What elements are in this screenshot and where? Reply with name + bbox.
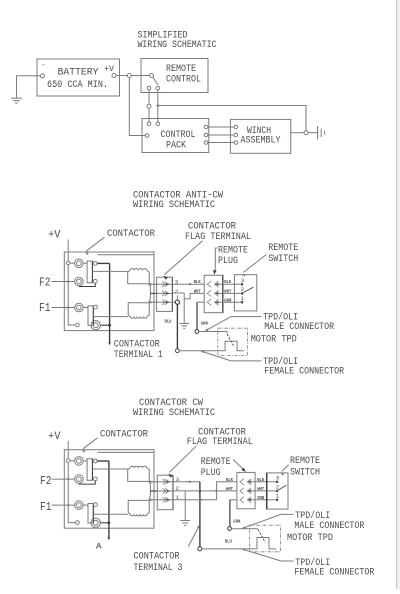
remote control label	[166, 63, 201, 85]
node winch ground junction	[304, 131, 308, 135]
wire row1 down to female (dark)	[199, 482, 201, 547]
control pack label	[161, 129, 196, 151]
leader remote switch label	[242, 255, 266, 277]
wire row2 ground drop (cw)	[184, 491, 186, 520]
wire T4 to A wire	[101, 522, 109, 524]
label F1 (anti-cw)	[39, 301, 51, 315]
tpd/oli male connector circle (anti-cw)	[195, 330, 199, 334]
svg-text:GRN: GRN	[201, 320, 208, 326]
wire plug GRN exit (cw)	[230, 499, 237, 501]
wire plug GRN exit	[197, 301, 204, 303]
wire plug to switch BLK (cw)	[255, 481, 275, 483]
label tpd/oli male connector (anti-cw)	[263, 312, 335, 334]
leader remote plug label	[213, 248, 217, 275]
svg-text:CONTACTOR: CONTACTOR	[134, 550, 181, 562]
tpd actuator diagonal (cw)	[258, 529, 265, 542]
plug chevrons row2	[207, 290, 223, 296]
svg-text:BLK: BLK	[226, 477, 233, 483]
winch assembly label	[241, 125, 282, 146]
wire contact b down	[157, 90, 159, 122]
contact pole1 lower point (cw)	[93, 477, 97, 481]
svg-text:WIRING SCHEMATIC: WIRING SCHEMATIC	[133, 407, 215, 419]
wire +V rail to control pack	[129, 78, 145, 136]
contactor flag terminal box (anti-cw)	[157, 277, 173, 311]
wire male connector to tpd (cw)	[231, 528, 258, 530]
switch pin 1 dot	[241, 301, 244, 304]
wire pole2 bar to lower coil (cw)	[93, 513, 128, 515]
contact bar pole 1	[87, 261, 92, 283]
control pack left terminal	[145, 134, 149, 138]
wire A (dark vertical)	[108, 461, 110, 538]
switch lever (cw)	[278, 485, 286, 490]
wire plug to switch WHT (cw)	[255, 490, 275, 492]
contactor box (anti-cw)	[64, 252, 154, 331]
wire T3 to contact bar 2 (cw)	[83, 504, 88, 506]
switch lever (anti-cw)	[243, 287, 253, 292]
plug chevrons row3 (cw)	[240, 497, 255, 503]
label GRN right (cw)	[257, 495, 264, 501]
row1 wire through flag box	[157, 283, 173, 285]
svg-text:WHT: WHT	[257, 486, 264, 492]
wire junction to chassis ground	[308, 132, 317, 134]
wire +V inner rail (cw)	[68, 462, 75, 522]
terminal T4 stud (cw)	[91, 518, 100, 527]
svg-text:FEMALE CONNECTOR: FEMALE CONNECTOR	[264, 366, 345, 378]
wire female connector to tpd element (cw)	[202, 538, 276, 549]
svg-text:MALE CONNECTOR: MALE CONNECTOR	[294, 520, 365, 532]
tpd actuator diagonal (anti-cw)	[227, 334, 234, 346]
arrowhead A wire end	[108, 537, 111, 540]
flag lug arrow row3	[148, 301, 151, 304]
wire T1 to contact bar	[83, 262, 87, 264]
wire plug to switch GRN	[223, 301, 241, 303]
svg-text:PACK: PACK	[166, 140, 187, 152]
wire pole1 lower to T2	[79, 283, 95, 286]
svg-text:F2: F2	[39, 276, 51, 290]
label contactor (anti-cw)	[107, 228, 156, 240]
svg-text:F1: F1	[39, 301, 51, 315]
label WHT left	[194, 289, 201, 295]
svg-text:WHT: WHT	[226, 486, 233, 492]
contact bar pole 1 (cw)	[87, 459, 92, 481]
tpd/oli female connector circle (anti-cw)	[176, 349, 180, 353]
wire control pack to winch 1	[208, 126, 234, 128]
svg-text:F1: F1	[40, 500, 52, 514]
coil K1 upper	[128, 269, 150, 284]
flag chevrons row3	[162, 300, 170, 305]
wire T1 to contact bar (cw)	[83, 460, 87, 462]
control pack box	[142, 119, 209, 153]
leader male connector label (cw)	[242, 514, 294, 528]
svg-text:2: 2	[175, 288, 179, 295]
label BLK plug-left (cw)	[226, 477, 233, 483]
wire BLU (dark vertical)	[176, 304, 178, 348]
svg-text:MOTOR TPD: MOTOR TPD	[287, 532, 333, 544]
contact pole1 upper point	[93, 262, 97, 266]
wire battery negative to ground	[17, 76, 41, 98]
wire winch to chassis ground	[291, 132, 304, 134]
row3 wire through flag box (cw)	[157, 499, 173, 501]
wire GRN drop (dark)	[196, 302, 198, 329]
wire plug WHT jog	[184, 293, 204, 298]
node +V circle (cw)	[66, 459, 70, 463]
battery positive terminal	[112, 74, 116, 78]
wire female connector to tpd + element	[179, 341, 244, 351]
svg-text:WHT: WHT	[194, 289, 201, 295]
remote plug box (anti-cw)	[204, 275, 223, 312]
arrowhead row3 (cw)	[200, 498, 203, 501]
svg-text:WHT: WHT	[224, 289, 231, 295]
label WHT plug-left (cw)	[226, 486, 233, 492]
leader male connector label	[205, 317, 262, 332]
plug chevrons row2 (cw)	[240, 488, 255, 494]
leader female connector label (cw)	[242, 549, 294, 561]
svg-text:GRN: GRN	[233, 518, 240, 524]
coil K2 lower (cw)	[128, 500, 149, 516]
switch pin 2 dot	[241, 292, 244, 295]
svg-text:TERMINAL 3: TERMINAL 3	[134, 562, 183, 574]
label F1 (cw)	[40, 500, 52, 514]
wire T3 to contact bar 2	[83, 307, 88, 309]
wire top rail to winch ground	[158, 106, 306, 131]
node junction circle	[147, 104, 151, 108]
wire coil row 3	[150, 301, 157, 303]
wire F2 (cw)	[52, 478, 75, 480]
wire F1	[52, 307, 75, 309]
label remote plug (anti-cw)	[218, 245, 248, 268]
control pack terminal t1	[147, 122, 151, 126]
leader contactor terminal 3	[188, 525, 199, 547]
title: contactor anti-cw wiring schematic	[133, 190, 224, 212]
label contactor terminal 1	[114, 338, 163, 360]
label F2 (cw)	[40, 474, 52, 488]
wire coil row 1 (cw)	[150, 481, 158, 483]
control pack right terminal r3	[204, 141, 208, 145]
wire plug to switch BLK	[223, 283, 241, 285]
motor tpd dashed box (anti-cw)	[218, 328, 248, 355]
wire pole1 upper to terminal wire	[97, 262, 109, 264]
wire +V inner rail	[68, 265, 75, 325]
svg-text:SWITCH: SWITCH	[268, 253, 298, 265]
junction dot T4 wire	[108, 324, 111, 327]
svg-text:GRN: GRN	[257, 495, 264, 501]
wire flag row3 to blu connector	[172, 301, 175, 303]
plug chevrons row1 (cw)	[240, 479, 255, 485]
remote switch box (anti-cw)	[234, 275, 256, 311]
wire pole2 bar to lower coil	[93, 316, 128, 318]
label remote plug (cw)	[201, 456, 231, 479]
plug chevrons row3	[207, 299, 223, 305]
switch pin numbers (cw)	[276, 474, 280, 499]
junction dot F1	[67, 306, 69, 308]
node +V circle	[66, 261, 70, 265]
svg-text:WIRING SCHEMATIC: WIRING SCHEMATIC	[138, 39, 217, 51]
leader flag terminal label (cw)	[168, 446, 196, 478]
svg-text:+V: +V	[104, 64, 115, 74]
leader contactor label	[85, 237, 104, 255]
terminal circle bottom left	[76, 323, 80, 327]
label motor tpd (cw)	[287, 532, 333, 544]
svg-text:BLK: BLK	[224, 279, 231, 285]
wire junction to control pack	[148, 108, 150, 122]
wire T4 to terminal wire	[101, 324, 110, 326]
contact bar pole 2 (cw)	[88, 504, 93, 524]
winch terminal w3	[234, 141, 238, 145]
battery negative terminal	[41, 74, 45, 78]
row3 wire through flag box	[157, 301, 173, 303]
svg-text:3: 3	[241, 277, 245, 284]
contact pole1 upper point (cw)	[93, 459, 97, 463]
inner top line	[98, 254, 155, 256]
coil K1 upper (cw)	[128, 466, 150, 481]
flag lug arrow row1	[148, 283, 151, 286]
ground flag row2	[179, 323, 189, 328]
arrowhead row2 (cw)	[216, 490, 219, 493]
label +V (anti-cw)	[48, 230, 61, 242]
terminal T1 stud	[75, 259, 84, 268]
winch terminal w2	[234, 133, 238, 137]
pin number 3 flag	[175, 279, 179, 286]
wire F1 (cw)	[52, 504, 75, 506]
svg-text:+V: +V	[48, 431, 61, 443]
terminal T2 stud (cw)	[75, 475, 84, 484]
svg-text:MALE CONNECTOR: MALE CONNECTOR	[264, 321, 335, 333]
flag chevrons row2	[162, 291, 170, 296]
wire plug to switch GRN (cw)	[255, 499, 275, 501]
battery labels	[42, 61, 115, 91]
chassis ground	[318, 126, 325, 140]
label tpd/oli male connector (cw)	[294, 510, 365, 532]
wire +V drop (cw)	[67, 441, 69, 459]
wire flag row2 to ground turn	[172, 292, 184, 294]
wire flag row1 right (cw)	[173, 481, 200, 483]
svg-text:FLAG TERMINAL: FLAG TERMINAL	[185, 231, 251, 243]
title: contactor cw wiring schematic	[133, 397, 215, 419]
wire coil row 3 (cw)	[150, 499, 158, 501]
terminal T2 stud	[75, 277, 84, 286]
switch pin 3 dot	[241, 283, 244, 286]
svg-text:3: 3	[276, 474, 280, 481]
label +V (cw)	[48, 431, 61, 443]
flag chevrons row3 (cw)	[163, 497, 171, 502]
wire flag row3 to plug BLK (cw)	[173, 482, 237, 500]
contact pole1 lower point	[93, 279, 97, 283]
leader female connector label	[200, 351, 261, 361]
label BLK right	[224, 279, 231, 285]
svg-text:GRN: GRN	[224, 297, 231, 303]
switch pin dots (cw)	[276, 481, 279, 502]
svg-text:BATTERY: BATTERY	[58, 67, 100, 79]
contact pole2 upper point	[94, 305, 98, 309]
svg-text:WIRING SCHEMATIC: WIRING SCHEMATIC	[133, 199, 215, 211]
wire battery positive to node	[116, 75, 127, 77]
remote control contact b	[156, 86, 160, 90]
remote control contact a	[147, 86, 151, 90]
switch pin numbers	[241, 277, 245, 302]
label remote switch (cw)	[290, 455, 320, 478]
wire pole1 bar to upper coil	[92, 270, 127, 272]
wire contact a down	[148, 90, 150, 104]
junction dot T4 wire (cw)	[108, 521, 111, 524]
label BLK left	[194, 279, 201, 285]
control pack terminal t2	[156, 122, 160, 126]
flag lug connector vertical	[149, 285, 151, 302]
wire contactor terminal 1 (dark vertical)	[109, 263, 111, 342]
svg-text:CONTACTOR: CONTACTOR	[100, 428, 149, 440]
junction dot F1 (cw)	[67, 504, 69, 506]
label GRN near drop (cw)	[233, 518, 240, 524]
flag lug connector vertical (cw)	[149, 482, 151, 499]
remote control switch pole	[150, 74, 154, 78]
svg-text:BLU: BLU	[225, 539, 232, 545]
leader remote plug label (cw)	[233, 459, 246, 472]
junction dot F2 (cw)	[67, 478, 69, 480]
svg-text:TERMINAL 1: TERMINAL 1	[114, 349, 163, 361]
flag chevrons row2 (cw)	[163, 488, 171, 493]
control pack right terminal r1	[204, 125, 208, 129]
wire coil row 2 dark (cw)	[150, 490, 157, 492]
svg-text:F2: F2	[40, 474, 52, 488]
svg-text:BLK: BLK	[257, 477, 264, 483]
terminal circle bottom left (cw)	[76, 521, 80, 525]
motor tpd dashed box (cw)	[250, 525, 281, 552]
label contactor flag terminal (cw)	[187, 427, 253, 449]
label tpd/oli female connector (anti-cw)	[263, 356, 345, 378]
wire coil row 1	[150, 283, 157, 285]
wire control pack to winch 3	[208, 142, 234, 144]
remote control switch lever	[153, 77, 158, 85]
flag lug arrow row1 (cw)	[148, 480, 151, 483]
winch terminal w1	[234, 125, 238, 129]
svg-text:MOTOR TPD: MOTOR TPD	[251, 334, 297, 346]
wire coil row 2 (dark)	[150, 292, 156, 294]
junction dot F2	[67, 280, 69, 282]
title: simplified wiring schematic	[138, 30, 217, 51]
wire F2	[52, 281, 75, 283]
ground flag row2 (cw)	[180, 521, 190, 526]
remote control U1 box	[141, 59, 208, 93]
label motor tpd (anti-cw)	[251, 334, 297, 346]
terminal T4 stud	[91, 321, 100, 330]
svg-text:REMOTE: REMOTE	[290, 455, 320, 467]
wire +V drop	[67, 240, 69, 262]
wire flag row2 to plug WHT (cw)	[173, 490, 237, 492]
svg-text:+V: +V	[48, 230, 61, 242]
label remote switch (anti-cw)	[268, 242, 298, 265]
leader flag terminal label	[164, 241, 203, 280]
wire flag row1 to plug BLK	[172, 283, 204, 285]
svg-text:A: A	[96, 542, 103, 552]
leader contactor label (cw)	[82, 438, 98, 453]
flag lug arrow row3 (cw)	[148, 498, 151, 501]
tpd/oli female connector circle (cw)	[198, 547, 202, 551]
label WHT right	[224, 289, 231, 295]
tpd/oli male connector circle (cw)	[228, 527, 232, 531]
wire node to T1	[70, 262, 75, 264]
battery B1 box	[37, 59, 120, 96]
label contactor (cw)	[100, 428, 149, 440]
contact pole2 upper point (cw)	[94, 503, 98, 507]
wire plug to switch WHT	[223, 292, 241, 294]
label contactor terminal 3	[134, 550, 183, 573]
pin numbers flag (cw)	[176, 476, 180, 501]
wire node to remote control switch	[131, 75, 149, 77]
flag chevrons row1 (cw)	[163, 479, 171, 484]
label BLU (cw)	[225, 539, 232, 545]
remote switch box (cw)	[267, 473, 288, 509]
arrowhead terminal 1 wire end	[108, 342, 111, 345]
contactor box (cw)	[64, 450, 154, 529]
label tpd/oli female connector (cw)	[294, 557, 375, 579]
pin number 2 flag	[175, 288, 179, 295]
svg-text:ASSEMBLY: ASSEMBLY	[241, 135, 282, 147]
label BLK right (cw)	[257, 477, 264, 483]
blu connector circle	[175, 300, 179, 304]
wire male connector to tpd	[199, 332, 227, 334]
plug chevrons row1	[207, 281, 223, 287]
terminal T3 stud	[75, 303, 84, 312]
wire GRN drop dark (cw)	[229, 500, 231, 527]
label BLU (anti-cw)	[165, 319, 172, 325]
label GRN (anti-cw)	[201, 320, 208, 326]
contactor flag terminal box (cw)	[157, 475, 173, 510]
arrowhead row1 (cw)	[189, 480, 192, 483]
svg-text:FLAG TERMINAL: FLAG TERMINAL	[187, 436, 253, 448]
flag chevrons row1	[162, 282, 170, 287]
label contactor flag terminal (anti-cw)	[185, 220, 251, 243]
wire row2 ground drop	[183, 293, 185, 323]
wire node to T1 (cw)	[70, 460, 75, 462]
svg-text:CONTACTOR: CONTACTOR	[107, 228, 156, 240]
node +V junction	[127, 74, 131, 78]
row2 wire through flag box (cw)	[157, 490, 173, 492]
svg-text:-: -	[42, 61, 46, 70]
label WHT right (cw)	[257, 486, 264, 492]
terminal T3 stud (cw)	[75, 501, 84, 510]
label GRN right	[224, 297, 231, 303]
arrowhead BLK wire	[189, 283, 192, 286]
leader remote switch label (cw)	[281, 465, 289, 476]
remote plug box (cw)	[237, 472, 255, 508]
ground battery	[11, 98, 22, 103]
label A	[96, 542, 103, 552]
svg-text:PLUG: PLUG	[201, 467, 221, 479]
wire pole1 bar to upper coil (cw)	[92, 468, 127, 470]
contact bar pole 2	[88, 306, 93, 326]
svg-text:SWITCH: SWITCH	[290, 466, 320, 478]
svg-text:PLUG: PLUG	[218, 255, 238, 267]
junction dot row2 (cw)	[199, 490, 202, 493]
inner top line (cw)	[98, 451, 155, 453]
svg-text:BLU: BLU	[165, 319, 172, 325]
terminal T1 stud (cw)	[75, 457, 84, 466]
coil K2 lower	[128, 303, 149, 319]
svg-text:BLK: BLK	[194, 279, 201, 285]
winch assembly box	[230, 119, 290, 153]
control pack right terminal r2	[204, 133, 208, 137]
wire pole1 upper to A wire	[97, 460, 109, 462]
svg-text:CONTROL: CONTROL	[166, 74, 201, 86]
stub above blu connector	[176, 295, 178, 300]
row1 wire through flag box (cw)	[157, 481, 173, 483]
row2 wire through flag box	[157, 292, 173, 294]
wire pole1 lower to T2 (cw)	[79, 481, 95, 484]
junction dot	[157, 104, 160, 107]
svg-text:650 CCA MIN.: 650 CCA MIN.	[47, 79, 108, 91]
svg-text:FEMALE CONNECTOR: FEMALE CONNECTOR	[294, 566, 375, 578]
wire control pack to winch 2	[208, 134, 234, 136]
label F2 (anti-cw)	[39, 276, 51, 290]
